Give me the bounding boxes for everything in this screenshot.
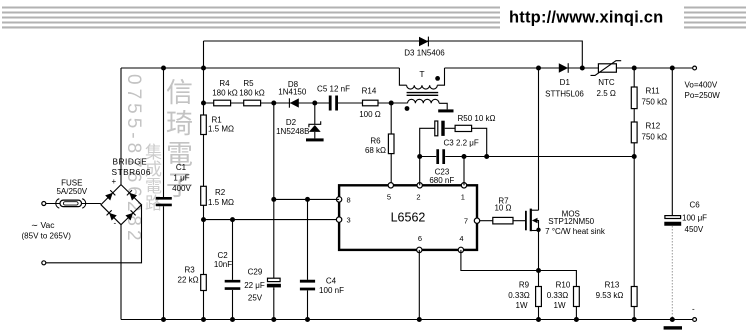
IC U1 L6562 bbox=[339, 185, 477, 250]
svg-text:STTH5L06: STTH5L06 bbox=[545, 90, 584, 99]
terminal output positive bbox=[693, 66, 697, 70]
svg-text:22 μF: 22 μF bbox=[244, 281, 265, 290]
svg-text:1.5 MΩ: 1.5 MΩ bbox=[208, 198, 234, 207]
svg-text:C5 12 nF: C5 12 nF bbox=[317, 84, 350, 93]
terminal AC neutral line bbox=[42, 261, 46, 265]
node drain column top bbox=[536, 66, 541, 71]
wire Vcc column bbox=[273, 103, 275, 320]
svg-text:1: 1 bbox=[461, 193, 465, 202]
svg-text:D3 1N5406: D3 1N5406 bbox=[404, 48, 445, 57]
wire R11/R12 column bbox=[633, 68, 635, 157]
resistor R4 180k bbox=[214, 100, 231, 106]
capacitor C29 22uF 25V bbox=[268, 278, 281, 281]
svg-text:25V: 25V bbox=[248, 294, 263, 303]
svg-text:T: T bbox=[419, 69, 424, 79]
node source sense bbox=[536, 268, 541, 273]
node divider tap bbox=[632, 154, 637, 159]
svg-text:750 kΩ: 750 kΩ bbox=[642, 97, 668, 106]
node C1 bottom bbox=[161, 317, 166, 322]
resistor R13 9.53k bbox=[631, 287, 637, 307]
wire R10 bottom bbox=[575, 307, 577, 320]
svg-text:100 Ω: 100 Ω bbox=[359, 110, 381, 119]
wire AC line top from terminal to bridge left vertex bbox=[46, 203, 101, 205]
wire R1/R2/R3 column bbox=[203, 68, 205, 320]
svg-text:1N5248B: 1N5248B bbox=[276, 127, 309, 136]
wire comp right leg bbox=[472, 128, 487, 156]
svg-text:C6: C6 bbox=[690, 201, 701, 210]
svg-text:D2: D2 bbox=[286, 118, 297, 127]
transformer T primary bbox=[399, 68, 406, 85]
svg-text:STP12NM50: STP12NM50 bbox=[548, 217, 594, 226]
svg-text:R11: R11 bbox=[646, 87, 661, 96]
svg-text:8: 8 bbox=[347, 195, 351, 204]
svg-text:R5: R5 bbox=[243, 79, 254, 88]
wire C4 column bbox=[307, 199, 309, 319]
svg-text:0.33Ω: 0.33Ω bbox=[547, 291, 569, 300]
wire pin4 sense line bbox=[461, 250, 577, 287]
svg-text:7 °C/W heat sink: 7 °C/W heat sink bbox=[545, 227, 606, 236]
wire AC line bottom from terminal to bridge right vertex bbox=[46, 205, 142, 263]
svg-text:5: 5 bbox=[387, 193, 391, 202]
svg-text:-: - bbox=[114, 219, 117, 228]
bridge rectifier STBR606 bbox=[101, 185, 142, 225]
svg-text:100 μF: 100 μF bbox=[682, 213, 707, 222]
wire pin2 compensation column bbox=[420, 128, 435, 185]
svg-text:R1: R1 bbox=[212, 115, 223, 124]
svg-text:68 kΩ: 68 kΩ bbox=[365, 146, 386, 155]
svg-text:R50 10 kΩ: R50 10 kΩ bbox=[458, 114, 496, 123]
svg-text:680 nF: 680 nF bbox=[429, 176, 454, 185]
pin 8 bbox=[336, 197, 341, 202]
capacitor C4 100nF bbox=[300, 281, 315, 289]
pin 7 bbox=[474, 218, 479, 223]
svg-text:STBR606: STBR606 bbox=[112, 167, 151, 177]
node zener junction bbox=[312, 101, 317, 106]
capacitor C3 2.2uF bbox=[435, 121, 438, 136]
resistor R14 100ohm bbox=[363, 100, 379, 106]
svg-text:-: - bbox=[692, 305, 695, 314]
svg-text:C4: C4 bbox=[326, 277, 337, 286]
svg-text:1.5 MΩ: 1.5 MΩ bbox=[208, 125, 234, 134]
wire drain column bbox=[538, 68, 540, 210]
node C4 top bbox=[305, 197, 310, 202]
svg-text:R6: R6 bbox=[370, 136, 381, 145]
capacitor C2 10nF bbox=[225, 281, 241, 288]
transformer T secondary bbox=[408, 99, 440, 103]
wire pin8 Vcc line bbox=[274, 198, 339, 200]
thermistor NTC 2.5ohm bbox=[598, 64, 616, 72]
svg-text:180 kΩ: 180 kΩ bbox=[212, 88, 238, 97]
resistor R1 1.5M bbox=[201, 115, 207, 135]
wire rail y68 transformer to output bbox=[445, 67, 693, 69]
wire bridge negative output down to ground rail bbox=[120, 225, 122, 320]
diode D3 1N5406 bbox=[419, 37, 428, 47]
resistor R11 750k bbox=[631, 87, 637, 109]
wire top rail with D3 bbox=[204, 41, 583, 68]
transformer core bbox=[407, 93, 439, 96]
decorative ruled lines left block bbox=[2, 8, 500, 28]
svg-text:NTC: NTC bbox=[598, 78, 615, 87]
node D1 cathode / top rail bbox=[580, 66, 585, 71]
wire C2 column bbox=[232, 220, 234, 320]
svg-text:1W: 1W bbox=[554, 301, 566, 310]
svg-text:C1: C1 bbox=[176, 163, 187, 172]
svg-text:C29: C29 bbox=[248, 268, 263, 277]
node startup rail left bbox=[201, 101, 206, 106]
node C6 bottom bbox=[670, 317, 675, 322]
svg-text:6: 6 bbox=[418, 234, 422, 243]
diode D8 1N4150 bbox=[290, 98, 299, 107]
svg-text:0.33Ω: 0.33Ω bbox=[508, 291, 530, 300]
ground aux winding bbox=[438, 109, 453, 112]
resistor R12 750k bbox=[631, 122, 637, 143]
svg-text:Vo=400V: Vo=400V bbox=[685, 80, 718, 89]
svg-text:100 nF: 100 nF bbox=[319, 286, 344, 295]
node R2 bottom / MULT wire bbox=[201, 217, 206, 222]
wire pin6 ground column bbox=[418, 250, 420, 320]
svg-text:1 μF: 1 μF bbox=[173, 174, 189, 183]
svg-text:180 kΩ: 180 kΩ bbox=[239, 88, 265, 97]
svg-text:D1: D1 bbox=[560, 78, 571, 87]
capacitor C23 680nF bbox=[438, 149, 444, 164]
terminal AC input line bbox=[42, 202, 46, 206]
svg-text:L6562: L6562 bbox=[391, 211, 426, 225]
svg-text:http://www.xinqi.cn: http://www.xinqi.cn bbox=[509, 9, 663, 27]
transistor Q1 MOS STP12NM50 bbox=[525, 211, 527, 231]
wire C1 column bbox=[163, 68, 165, 320]
pin 6 bbox=[417, 247, 422, 252]
svg-text:9.53 kΩ: 9.53 kΩ bbox=[596, 291, 624, 300]
wire vertical top rail left leg bbox=[203, 41, 205, 68]
ground rail bottom bbox=[121, 319, 693, 321]
node C4 bottom bbox=[305, 317, 310, 322]
node C2 bottom bbox=[230, 317, 235, 322]
wire R13 column bbox=[633, 157, 635, 320]
svg-text:1N4150: 1N4150 bbox=[278, 87, 307, 96]
svg-text:3: 3 bbox=[347, 216, 351, 225]
svg-text:450V: 450V bbox=[685, 225, 704, 234]
node R9 bottom bbox=[536, 317, 541, 322]
svg-text:信: 信 bbox=[166, 78, 193, 108]
svg-text:BRIDGE: BRIDGE bbox=[113, 157, 148, 167]
ground output negative bbox=[664, 326, 682, 329]
pin 4 bbox=[458, 247, 463, 252]
node pin6 ground bbox=[417, 317, 422, 322]
wire pin1 column bbox=[463, 157, 465, 186]
node C1 top bbox=[161, 66, 166, 71]
capacitor C1 1uF 400V bbox=[156, 198, 172, 205]
svg-text:22 kΩ: 22 kΩ bbox=[178, 275, 199, 284]
svg-text:2: 2 bbox=[416, 193, 420, 202]
wire main rail y68 from bridge to transformer bbox=[121, 67, 399, 69]
svg-text:R9: R9 bbox=[519, 281, 530, 290]
svg-text:(85V to 265V): (85V to 265V) bbox=[22, 232, 72, 241]
node R3 bottom bbox=[201, 317, 206, 322]
transformer phase dot secondary bbox=[405, 106, 410, 111]
pin 1 bbox=[461, 183, 466, 188]
pin 3 bbox=[336, 217, 341, 222]
svg-text:R12: R12 bbox=[646, 122, 661, 131]
svg-text:R2: R2 bbox=[215, 188, 226, 197]
node Vcc pin8 wire bbox=[271, 197, 276, 202]
svg-text:R4: R4 bbox=[219, 79, 230, 88]
node R10 bottom bbox=[574, 317, 579, 322]
terminal output negative bbox=[693, 318, 697, 322]
diode D1 STTH5L06 bbox=[559, 63, 568, 72]
node pin1 feedback bbox=[462, 154, 467, 159]
svg-text:10nF: 10nF bbox=[214, 260, 232, 269]
svg-text:+: + bbox=[112, 177, 117, 186]
resistor R6 68k bbox=[390, 103, 392, 185]
node R1 column top bbox=[201, 66, 206, 71]
svg-text:7: 7 bbox=[464, 216, 468, 225]
svg-text:R14: R14 bbox=[362, 87, 377, 96]
resistor R5 180k bbox=[244, 100, 261, 106]
resistor R50 10k bbox=[455, 125, 472, 131]
svg-text:琦: 琦 bbox=[166, 109, 193, 139]
svg-text:C3 2.2 μF: C3 2.2 μF bbox=[444, 139, 479, 148]
wire gate lead bbox=[513, 220, 526, 222]
svg-text:C2: C2 bbox=[217, 251, 228, 260]
capacitor C6 100uF 450V bbox=[665, 216, 681, 219]
svg-text:1W: 1W bbox=[516, 301, 528, 310]
svg-text:∼ Vac: ∼ Vac bbox=[31, 220, 55, 230]
decorative ruled lines right block bbox=[684, 8, 746, 28]
wire bridge positive output up to main rail bbox=[120, 68, 122, 185]
svg-text:路: 路 bbox=[145, 194, 162, 213]
wire C6 column lower dashed bbox=[671, 226, 673, 320]
svg-text:5A/250V: 5A/250V bbox=[56, 187, 87, 196]
node aux winding / R6 bbox=[389, 101, 394, 106]
node comp left bbox=[417, 154, 422, 159]
node comp right bbox=[484, 154, 489, 159]
fuse F1 5A/250V bbox=[56, 199, 86, 208]
pin 5 bbox=[388, 183, 393, 188]
svg-text:400V: 400V bbox=[172, 184, 191, 193]
zener D2 1N5248B bbox=[314, 103, 316, 124]
svg-text:4: 4 bbox=[459, 234, 463, 243]
pin 2 bbox=[417, 183, 422, 188]
svg-text:R10: R10 bbox=[556, 281, 571, 290]
wire pin7 gate line bbox=[480, 220, 493, 222]
resistor R3 22k bbox=[201, 275, 207, 291]
svg-text:750 kΩ: 750 kΩ bbox=[642, 133, 668, 142]
svg-text:2.5 Ω: 2.5 Ω bbox=[597, 89, 616, 98]
transformer phase dot primary bbox=[435, 76, 440, 81]
resistor R2 1.5M bbox=[201, 186, 207, 205]
node Vcc feed junction bbox=[271, 101, 276, 106]
node C29 bottom bbox=[271, 317, 276, 322]
resistor R10 0.33ohm bbox=[574, 287, 580, 307]
wire feedback line y156.5 bbox=[420, 156, 635, 158]
svg-text:R3: R3 bbox=[185, 266, 196, 275]
node C6 top bbox=[670, 66, 675, 71]
svg-text:10 Ω: 10 Ω bbox=[494, 204, 511, 213]
node R13 bottom bbox=[632, 317, 637, 322]
node R11 top bbox=[632, 66, 637, 71]
resistor R9 0.33ohm bbox=[536, 287, 542, 307]
wire source column bbox=[538, 231, 540, 320]
wire startup rail y103 bbox=[204, 102, 408, 104]
wire C6 column upper bbox=[671, 68, 673, 216]
svg-text:R13: R13 bbox=[605, 281, 620, 290]
svg-text:Po=250W: Po=250W bbox=[685, 91, 721, 100]
wire MULT pin3 line bbox=[204, 219, 340, 221]
resistor R7 10ohm bbox=[493, 217, 513, 224]
capacitor C5 12nF bbox=[330, 96, 336, 111]
node C2 top bbox=[230, 217, 235, 222]
